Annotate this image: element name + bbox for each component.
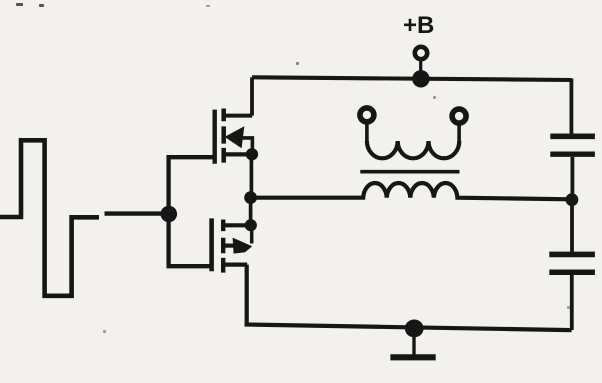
wire mid node to C2 xyxy=(570,205,574,252)
wire +B stem xyxy=(419,60,422,72)
ground xyxy=(390,354,435,360)
transistor Q1 body tie xyxy=(241,138,252,151)
wire C1 to mid node xyxy=(571,157,575,195)
transistor Q2 gate bar xyxy=(209,218,214,271)
wire C2 to bottom rail xyxy=(570,275,574,330)
wire mid node to Q2 drain xyxy=(249,198,253,226)
wire bottom rail xyxy=(245,325,572,331)
capacitor C1 top plate xyxy=(550,134,595,140)
transformer T1 primary left terminal xyxy=(360,108,374,122)
transistor Q2 drain lead xyxy=(223,223,251,227)
transistor Q1 channel segments xyxy=(221,109,226,163)
wire Q2 drain to body arrow xyxy=(250,225,254,243)
transformer T1 primary winding xyxy=(367,141,459,158)
transistor Q1 gate bar xyxy=(212,110,216,164)
wire gate node to Q2 gate xyxy=(169,212,211,266)
wire primary right stem xyxy=(457,123,461,142)
transistor Q1 body arrow xyxy=(225,126,245,148)
transistor Q1 drain lead xyxy=(225,152,252,156)
capacitor C2 top plate xyxy=(549,252,595,258)
scan specks xyxy=(16,3,570,333)
wire Q1 drain to mid node xyxy=(250,154,254,198)
input square-wave signal xyxy=(0,140,99,295)
transformer T1 primary right terminal xyxy=(452,109,466,123)
transistor Q2 source lead xyxy=(222,263,247,267)
wire mid node through secondary winding L1 to right rail xyxy=(251,183,572,199)
wire primary left stem xyxy=(365,122,369,142)
wire gate node to Q1 gate xyxy=(169,157,213,216)
node right rail mid xyxy=(566,193,579,206)
wire Q2 source to bottom rail xyxy=(245,265,249,325)
wire top rail xyxy=(252,77,572,80)
transistor Q2 channel segments xyxy=(221,220,225,273)
svg-text:+B: +B xyxy=(403,12,434,39)
transformer T1 core xyxy=(360,170,459,174)
node +B on top rail xyxy=(412,70,429,87)
node Q1 drain xyxy=(246,148,258,160)
node ground on bottom rail xyxy=(405,320,424,338)
node mid output xyxy=(244,191,257,204)
wire right rail top to C1 xyxy=(570,79,574,134)
wire ground stem xyxy=(412,334,415,355)
transistor Q2 body arrow xyxy=(233,238,253,254)
node gate junction xyxy=(161,206,178,223)
node Q2 drain xyxy=(245,219,257,231)
wire input to gate node xyxy=(105,211,167,215)
capacitor C2 bottom plate xyxy=(549,270,595,276)
transistor Q1 source lead xyxy=(224,114,253,118)
capacitor C1 bottom plate xyxy=(550,151,595,156)
terminal +B circle xyxy=(415,47,427,59)
transistor Q2 body lead xyxy=(223,244,235,248)
wire Q1 source to top rail xyxy=(250,77,254,115)
